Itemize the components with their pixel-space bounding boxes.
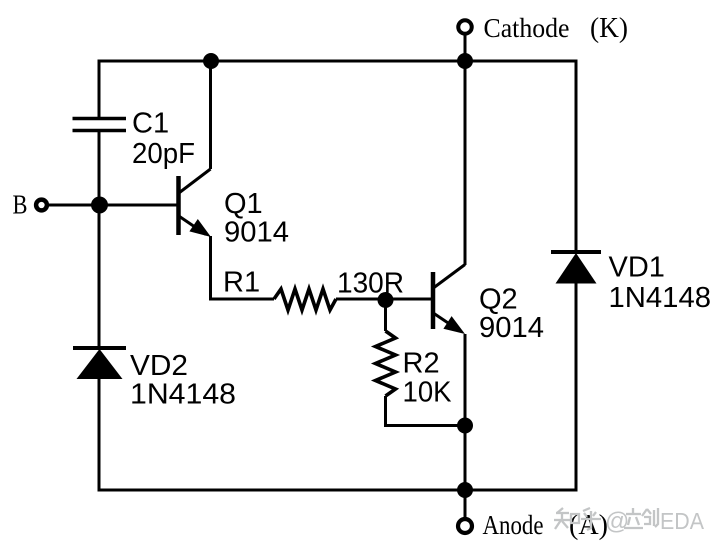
svg-text:20pF: 20pF xyxy=(132,138,195,170)
wire Q2 collector vertical xyxy=(464,61,467,265)
svg-text:9014: 9014 xyxy=(224,217,289,249)
svg-text:R1: R1 xyxy=(223,267,260,299)
transistor Q2 xyxy=(433,265,465,335)
node top-left junction xyxy=(203,53,219,69)
svg-text:@: @ xyxy=(605,508,629,535)
wire left rail middle xyxy=(98,131,101,348)
transistor Q1 xyxy=(179,169,212,237)
svg-text:Anode: Anode xyxy=(483,510,544,540)
wire right rail lower xyxy=(575,283,578,492)
node R2/emitter junction xyxy=(457,418,473,434)
node R1/R2/Q2 junction xyxy=(378,292,394,308)
wire R2 top xyxy=(384,299,387,331)
node bottom junction xyxy=(457,482,473,498)
resistor R2 xyxy=(376,331,396,396)
wire R2 bottom to emitter junction xyxy=(386,396,466,426)
svg-text:Q2: Q2 xyxy=(479,284,518,316)
terminal Cathode xyxy=(458,20,472,34)
terminal Anode xyxy=(458,519,472,533)
svg-text:(K): (K) xyxy=(590,12,628,44)
diode VD2 xyxy=(73,348,126,379)
svg-text:9014: 9014 xyxy=(479,312,544,344)
wire Q1 emitter vertical + R1 left xyxy=(211,236,275,299)
terminal B xyxy=(36,200,47,211)
svg-text:1N4148: 1N4148 xyxy=(130,379,236,411)
svg-text:130R: 130R xyxy=(337,268,404,300)
wire cathode stub xyxy=(464,35,467,61)
resistor R1 xyxy=(274,289,336,310)
svg-text:VD2: VD2 xyxy=(130,350,188,382)
watermark zhihu @lichuang EDA xyxy=(554,508,601,530)
wire Q2 emitter vertical xyxy=(464,334,467,518)
svg-text:EDA: EDA xyxy=(660,508,705,534)
wire top horizontal xyxy=(99,60,576,63)
svg-text:C1: C1 xyxy=(132,108,169,140)
wire base B to Q1 xyxy=(49,204,177,207)
wire R1 to Q2 base xyxy=(336,298,432,301)
capacitor C1 xyxy=(73,119,127,131)
svg-text:B: B xyxy=(13,190,28,220)
wire bottom horizontal xyxy=(99,489,576,492)
node B junction xyxy=(91,197,108,214)
node top cathode junction xyxy=(457,53,473,69)
svg-text:R2: R2 xyxy=(403,348,440,380)
svg-text:VD1: VD1 xyxy=(609,252,665,284)
svg-text:Cathode: Cathode xyxy=(484,13,570,43)
svg-text:Q1: Q1 xyxy=(224,188,263,220)
wire left rail lower xyxy=(98,378,101,492)
wire left rail upper xyxy=(98,60,101,119)
svg-text:10K: 10K xyxy=(403,377,453,409)
svg-text:1N4148: 1N4148 xyxy=(609,282,712,314)
wire right rail upper xyxy=(575,60,578,253)
diode VD1 xyxy=(551,252,601,284)
wire Q1 collector vertical xyxy=(209,61,212,169)
